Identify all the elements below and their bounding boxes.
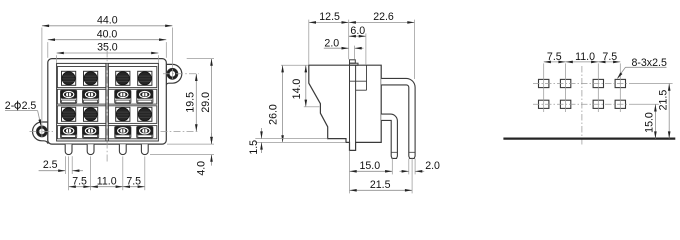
- svg-text:2.0: 2.0: [425, 160, 440, 172]
- svg-text:4.0: 4.0: [196, 161, 208, 176]
- svg-text:7.5: 7.5: [72, 176, 87, 188]
- svg-text:1.5: 1.5: [248, 140, 260, 155]
- svg-text:21.5: 21.5: [370, 179, 391, 191]
- svg-text:2.5: 2.5: [22, 100, 37, 112]
- svg-text:26.0: 26.0: [268, 104, 280, 125]
- svg-text:11.0: 11.0: [575, 51, 595, 63]
- svg-text:22.6: 22.6: [373, 11, 394, 23]
- svg-text:7.5: 7.5: [602, 51, 617, 63]
- svg-text:35.0: 35.0: [97, 42, 118, 54]
- svg-text:40.0: 40.0: [97, 28, 118, 40]
- svg-text:29.0: 29.0: [200, 92, 212, 113]
- svg-text:14.0: 14.0: [291, 79, 303, 100]
- svg-text:2.0: 2.0: [324, 37, 339, 49]
- svg-text:7.5: 7.5: [126, 176, 141, 188]
- svg-text:2-: 2-: [5, 100, 15, 112]
- svg-text:7.5: 7.5: [547, 51, 562, 63]
- svg-text:11.0: 11.0: [97, 176, 117, 188]
- svg-text:15.0: 15.0: [644, 112, 656, 133]
- svg-text:6.0: 6.0: [350, 25, 365, 37]
- svg-text:2.5: 2.5: [43, 159, 58, 171]
- svg-text:15.0: 15.0: [359, 160, 380, 172]
- svg-text:19.5: 19.5: [185, 92, 197, 113]
- svg-text:44.0: 44.0: [97, 14, 118, 26]
- svg-text:21.5: 21.5: [657, 90, 669, 111]
- svg-text:12.5: 12.5: [319, 11, 340, 23]
